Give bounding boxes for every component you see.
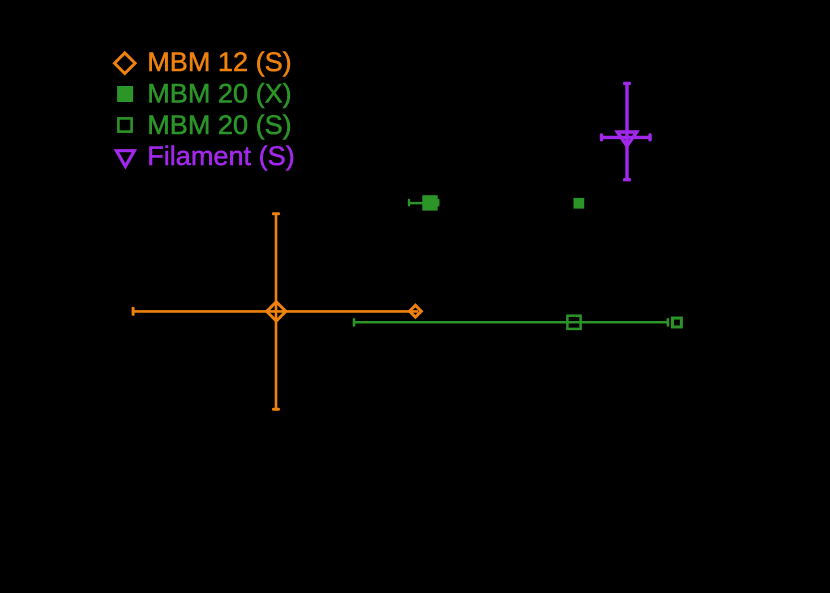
svg-text:Filament (S): Filament (S) [147, 140, 295, 171]
svg-text:MBM 20 (S): MBM 20 (S) [147, 109, 292, 140]
svg-text:MBM 20 (X): MBM 20 (X) [147, 78, 292, 109]
svg-text:MBM 12 (S): MBM 12 (S) [147, 46, 292, 77]
